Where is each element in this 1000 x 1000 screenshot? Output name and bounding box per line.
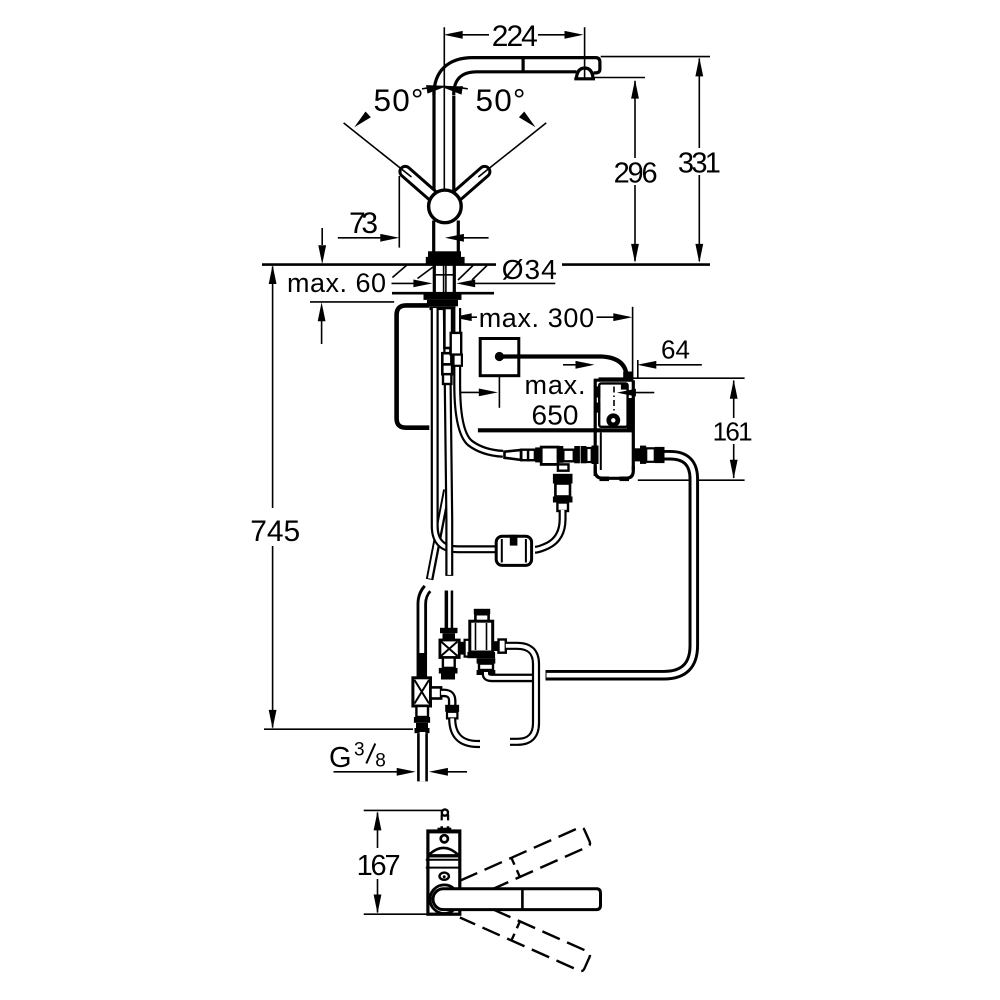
- spout outer contour: [434, 58, 600, 95]
- faucet body pipe: [434, 92, 454, 192]
- base dome arc: [427, 848, 459, 856]
- sensor box drop line: [498, 376, 500, 408]
- control unit left clips: [594, 386, 600, 397]
- faucet centerline: [443, 27, 445, 190]
- hose bottle to filter: [534, 510, 563, 550]
- dimension 64 extension line: [637, 360, 639, 379]
- hose connector stack on hose E: [451, 333, 462, 355]
- right loop hose: [546, 455, 694, 675]
- dimension O34 text: [496, 253, 562, 282]
- check valve body: [541, 447, 558, 464]
- connector to shutoff valve: [459, 642, 464, 655]
- dimension 73 extension line: [398, 176, 400, 248]
- dimension G3/8 line right: [448, 771, 468, 773]
- svg-text:224: 224: [492, 20, 538, 53]
- spout pivot circle: [430, 885, 459, 914]
- dimension O34 leader line: [475, 282, 555, 284]
- control unit leader arrow: [634, 392, 655, 394]
- dimension 296 line: [634, 81, 636, 261]
- spout top view solid: [433, 889, 601, 910]
- dimension 296 arrow bottom: [631, 244, 639, 263]
- dimension max300 arrow right: [613, 313, 632, 321]
- dimension 161 arrow top: [730, 380, 738, 399]
- mounting nut: [427, 300, 458, 306]
- dimension max60 arrow bottom: [321, 320, 323, 344]
- handle lever left: [398, 164, 440, 202]
- angle 50 arc: [422, 87, 468, 89]
- middle check valve nut: [440, 628, 458, 633]
- dimension 224 arrow right: [565, 31, 584, 39]
- middle valve lower nut: [439, 668, 458, 674]
- nut lower ring: [430, 306, 456, 310]
- svg-text:max. 60: max. 60: [287, 268, 386, 298]
- svg-text:745: 745: [250, 515, 300, 548]
- dimension max650 leader: [459, 391, 479, 393]
- dimension max300 arrow left: [453, 313, 472, 321]
- dimension 745 arrow bottom: [269, 710, 277, 729]
- bottle connector bands: [553, 474, 573, 484]
- dimension 73 line right: [462, 237, 489, 239]
- spout inner/bottom line: [454, 72, 577, 95]
- middle valve lower pipe: [443, 658, 455, 668]
- angle 50 leg right: [478, 123, 546, 177]
- svg-text:50°: 50°: [476, 82, 526, 118]
- dimension 224 arrow left: [444, 31, 463, 39]
- svg-text:max. 300: max. 300: [479, 303, 594, 333]
- control unit right outlet fittings: [635, 448, 640, 461]
- angle 50 arrow outer left: [352, 111, 371, 130]
- shutoff valve lower stack: [477, 658, 496, 663]
- spray head dome: [576, 68, 593, 78]
- middle check valve body: [440, 640, 459, 658]
- svg-text:64: 64: [661, 334, 690, 364]
- control unit slot dash line: [613, 387, 615, 414]
- base screw hole: [441, 835, 448, 842]
- control unit bolt: [606, 413, 620, 427]
- countertop top line: [262, 263, 710, 266]
- control unit inner cartridge: [599, 383, 627, 426]
- dimension 167 arrow top: [374, 811, 382, 830]
- tee side branch: [431, 687, 442, 698]
- shutoff valve cap: [474, 609, 490, 614]
- valve lower elbow hose: [486, 672, 541, 678]
- dimension max60 lower extension line: [310, 301, 394, 303]
- valve right hose curl: [506, 646, 536, 742]
- svg-text:max.: max.: [525, 370, 586, 400]
- svg-text:3: 3: [354, 740, 365, 761]
- svg-text:167: 167: [357, 850, 401, 882]
- dimension 73 arrow right: [445, 234, 464, 242]
- shutoff valve flange: [467, 652, 495, 658]
- sensor cable to control unit: [503, 357, 627, 379]
- dimension 331 arrow bottom: [695, 244, 703, 263]
- supply pipe G3/8: [417, 732, 428, 781]
- base top glyph ring: [442, 810, 448, 816]
- control unit lower inner line: [600, 433, 602, 471]
- angle 50 leg left: [344, 123, 412, 177]
- base body outline: [428, 831, 460, 914]
- inline filter: [496, 536, 531, 565]
- escutcheon flange upper: [428, 251, 461, 257]
- svg-text:296: 296: [614, 158, 658, 190]
- angle 50 arrow inner left: [426, 82, 448, 94]
- dimension 161 bottom extension line: [638, 479, 745, 481]
- dimension 73 arrow left: [380, 234, 399, 242]
- control unit corner clip: [621, 384, 627, 390]
- shank inner lines: [434, 265, 454, 294]
- dimension 331 arrow top: [695, 57, 703, 76]
- faucet base cone: [434, 221, 459, 252]
- angle 50 arrow inner right: [441, 83, 463, 95]
- escutcheon flange lower: [426, 257, 465, 264]
- control unit feet: [600, 477, 610, 482]
- dashed swivel spout lower: [460, 898, 591, 972]
- hose connector stack on hose D: [444, 308, 452, 348]
- base top hump: [429, 830, 458, 833]
- filter top tab: [510, 535, 518, 546]
- svg-text:G: G: [329, 742, 352, 774]
- sensor cable node: [495, 352, 504, 361]
- control unit right dark band: [627, 398, 635, 430]
- check valve left band: [535, 447, 541, 462]
- handle lever right: [450, 164, 492, 202]
- dimension 224 line: [461, 34, 565, 36]
- base body lines: [426, 860, 461, 868]
- dimension G3/8 line left: [334, 771, 399, 773]
- dimension 167 line: [377, 813, 379, 913]
- dimension 73 line left: [338, 237, 381, 239]
- dimension 745 bottom extension line: [264, 728, 413, 730]
- bottom view bottom extension line: [364, 913, 449, 915]
- svg-text:650: 650: [532, 400, 579, 431]
- valve right outlet fitting: [493, 641, 499, 651]
- dimension 161 top extension line: [599, 377, 745, 379]
- control unit outline: [594, 380, 634, 476]
- dimension 64 arrow right: [637, 361, 656, 369]
- handle ball joint: [429, 190, 462, 223]
- angle valve tee body: [413, 678, 431, 706]
- angle 50 arrow outer right: [519, 111, 538, 130]
- dimension max60 arrow top: [321, 228, 323, 245]
- tee lower adapter: [416, 706, 428, 717]
- dimension 161 line: [733, 381, 735, 479]
- dimension 745 line: [272, 267, 274, 728]
- dimension 745 arrow top: [269, 265, 277, 284]
- branch coupling: [445, 705, 459, 712]
- supply pipe upper stub: [417, 588, 428, 679]
- countertop bottom line: [392, 292, 494, 295]
- deck hatching left: [392, 265, 433, 279]
- check valve bottom stem: [558, 464, 569, 470]
- max650 underline / unit divider: [478, 428, 635, 432]
- dimension 64 arrow left: [563, 364, 577, 366]
- bottom view top extension line: [364, 809, 444, 811]
- union coupling rings: [521, 450, 528, 461]
- dimension 161 arrow bottom: [730, 460, 738, 479]
- sensor box: [480, 339, 519, 376]
- deck hatching right: [458, 266, 487, 281]
- union hose end wedge: [505, 450, 522, 460]
- dimension max300 extension line: [632, 307, 634, 379]
- hose E faucet to union: [457, 308, 503, 454]
- control unit left inlet fitting: [592, 446, 599, 465]
- base sensor window: [440, 873, 449, 880]
- hose B faucet to filter: [435, 308, 497, 549]
- control unit bottom: [595, 466, 633, 478]
- check valve right band: [558, 446, 564, 463]
- threaded shank: [434, 265, 454, 294]
- dimension 224 extension right: [584, 27, 586, 78]
- spray head face: [574, 77, 595, 80]
- svg-text:331: 331: [678, 148, 721, 180]
- base dome chord: [428, 854, 459, 857]
- branch hose curl: [452, 718, 481, 744]
- dimension O34 arrow left: [392, 282, 415, 284]
- mounting washer: [424, 294, 462, 300]
- dashed swivel spout upper: [460, 826, 591, 900]
- shutoff valve body: [470, 621, 493, 652]
- branch elbow hose: [441, 693, 452, 706]
- spout joint divider: [521, 59, 524, 72]
- sensor cable bracket loop: [397, 305, 430, 427]
- dimension 331 top extension line: [601, 56, 710, 58]
- dimension 296 top extension line: [593, 77, 645, 79]
- svg-text:73: 73: [349, 207, 378, 240]
- dimension O34 arrow right: [456, 280, 475, 288]
- dimension G3/8 arrow left: [397, 768, 416, 776]
- tee coupling nut: [414, 717, 430, 723]
- svg-text:8: 8: [375, 750, 386, 771]
- hose D faucet to check valve: [447, 308, 450, 629]
- cable entry plug: [623, 372, 633, 382]
- base top glyph feet: [442, 826, 448, 830]
- dimension 331 line: [698, 59, 700, 262]
- dimension max300 line right: [597, 316, 629, 318]
- hose C diagonal to angle valve: [430, 489, 447, 580]
- svg-text:50°: 50°: [374, 82, 424, 118]
- svg-text:161: 161: [713, 417, 753, 447]
- svg-text:Ø34: Ø34: [502, 254, 557, 285]
- dimension G3/8 arrow right: [429, 768, 448, 776]
- check valve to unit segments: [563, 450, 574, 462]
- dimension 296 arrow top: [631, 80, 639, 99]
- dimension 167 arrow bottom: [374, 895, 382, 914]
- spout top view divider: [521, 889, 524, 910]
